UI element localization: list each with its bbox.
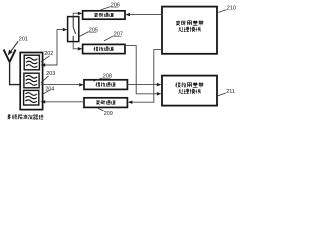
label 210 leader [218, 10, 226, 13]
label 207 leader [104, 36, 114, 41]
wire antenna stem [10, 61, 21, 85]
svg-text:210: 210 [227, 5, 236, 11]
label 203 leader [41, 76, 49, 83]
wire 203-208 [41, 84, 80, 86]
label 211 leader [218, 93, 226, 96]
label 205 leader [79, 32, 89, 37]
label 204 leader [42, 90, 51, 95]
wire 207-211 [125, 46, 157, 94]
antenna 201 [4, 50, 16, 62]
box 211 RX baseband [162, 76, 217, 106]
wire switch-207 [73, 42, 78, 49]
svg-text:211: 211 [226, 89, 235, 95]
box 208 RX channel [84, 80, 127, 90]
label 208 leader [93, 78, 102, 81]
label 209 leader [98, 108, 103, 110]
wire switch-206 [73, 13, 78, 16]
svg-text:207: 207 [114, 32, 123, 38]
filter 204 [24, 90, 39, 105]
svg-text:209: 209 [104, 111, 113, 117]
wire 208-211 [127, 84, 157, 86]
label 202 leader [41, 56, 50, 62]
svg-text:206: 206 [111, 2, 120, 8]
wire 210-209 [132, 49, 162, 102]
svg-text:203: 203 [46, 71, 55, 77]
box 207 RX channel [83, 44, 125, 53]
label 206 leader [101, 7, 111, 10]
switch 205 [68, 17, 79, 42]
box 209 TX channel [84, 98, 127, 108]
filter 202 [24, 55, 39, 70]
filter bank box [20, 53, 42, 110]
box 210 TX baseband [162, 7, 217, 54]
caption 多频段滤波器组 [7, 115, 10, 120]
box 206 TX channel [83, 11, 125, 19]
wire 202-switch [41, 63, 46, 66]
svg-text:205: 205 [89, 27, 98, 33]
svg-text:208: 208 [103, 74, 112, 80]
svg-text:201: 201 [19, 37, 28, 43]
filter 203 [24, 73, 39, 88]
wire 210-206 [130, 14, 162, 16]
wire 209-204 [45, 101, 84, 103]
label 201 leader [10, 41, 18, 53]
